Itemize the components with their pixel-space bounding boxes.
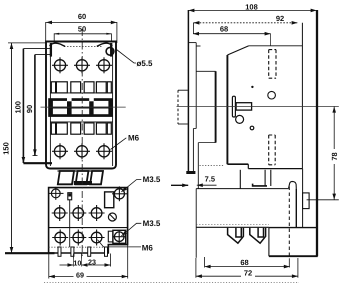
bottom terminal screw 1 (52, 143, 68, 159)
leader M3.5 (121, 180, 141, 192)
svg-text:50: 50 (78, 24, 86, 33)
relay solid bottom edge (196, 226, 269, 228)
body bottom right (248, 168, 302, 170)
small hole circle (268, 91, 276, 99)
indicator drop line (69, 200, 71, 247)
relay side left face (195, 189, 197, 258)
dim 90 line (34, 55, 36, 156)
svg-text:150: 150 (2, 142, 11, 155)
rail line under upper openings (50, 92, 112, 94)
svg-text:M6: M6 (128, 134, 140, 143)
relay foot slot 1 (58, 247, 61, 256)
leader M6 upper (111, 138, 127, 150)
relay dotted bottom line (49, 246, 109, 248)
side view center line (177, 105, 339, 107)
relay side bump (289, 181, 297, 188)
body chamfer (227, 46, 248, 55)
dim 23 line (82, 264, 111, 266)
relay divider line (49, 227, 128, 229)
dim 78 bottom extension (307, 199, 339, 201)
relay row2 screw 3 (89, 205, 105, 221)
svg-text:10: 10 (73, 258, 81, 267)
dashed screw center line (288, 187, 290, 259)
gap tab line (239, 170, 241, 189)
relay foot slot 3 (88, 247, 91, 256)
back plate rear face (187, 10, 189, 172)
armature pin (236, 103, 252, 110)
body inner left line (49, 48, 51, 166)
dim 92 line (dashed) (193, 22, 297, 24)
dim 10 extension lines (73, 254, 75, 267)
leader M6 lower (98, 240, 142, 247)
body bottom left (227, 163, 248, 165)
back plate top (188, 42, 196, 44)
back plate front face upper (195, 43, 197, 129)
dim 10 line (60, 264, 74, 266)
body rear inner face (215, 71, 217, 142)
rail line above lower openings (50, 121, 112, 123)
small dot lower (250, 126, 254, 130)
ear hole circle o5.5 (106, 47, 114, 55)
relay foot slot 4 (105, 247, 108, 256)
svg-text:100: 100 (14, 101, 23, 114)
small dot upper (251, 86, 253, 88)
top terminal screw 3 (96, 57, 112, 73)
dim 60 extension lines (45, 22, 47, 41)
relay row3 screw 1 (52, 230, 68, 246)
dim 7.5 line (171, 184, 188, 186)
notch bottom (196, 70, 215, 72)
text 78 (330, 149, 340, 164)
relay side top face (196, 188, 288, 190)
dim 100 line (22, 49, 24, 163)
bottom dims extensions (195, 258, 197, 278)
back plate front face lower (192, 129, 194, 172)
dim 7.5 line right part (197, 184, 217, 186)
front view dimension texts (2, 12, 161, 252)
left mounting ear stub (50, 43, 52, 57)
gap tab 2 left (264, 170, 266, 186)
dim 92 left extension (192, 23, 194, 34)
dim 69 extensions (48, 254, 50, 279)
contact band (dark) (48, 97, 113, 117)
terminal lug 1 (58, 171, 74, 184)
svg-text:78: 78 (330, 152, 339, 160)
inner step drop (197, 143, 199, 189)
relay M3.5 screw (top right) (112, 186, 127, 201)
claw 2 (250, 228, 266, 243)
svg-text:92: 92 (276, 14, 284, 23)
body bottom step (247, 164, 249, 168)
right mounting ear curve (97, 43, 113, 46)
bottom terminal screw 2 (74, 143, 90, 159)
dim 150 line (11, 43, 13, 253)
svg-text:68: 68 (220, 25, 228, 34)
body front face (301, 23, 303, 169)
front tab vertical (302, 169, 304, 228)
DIN clip dashed box (178, 89, 188, 91)
text 72 (241, 268, 255, 277)
lower block left (268, 228, 270, 257)
relay row2 screw 1 (52, 205, 68, 221)
front small tab (303, 193, 310, 209)
dim 100 extension top (23, 48, 51, 50)
lower block bottom (269, 255, 318, 257)
front view vertical center line (81, 29, 83, 257)
leader o5.5 (117, 50, 137, 64)
front view body outline (46, 42, 116, 169)
line between mounting ears (64, 46, 103, 48)
dim 68 line (193, 33, 271, 35)
dim 90 extension top (35, 54, 52, 56)
dim 50 line (54, 34, 111, 43)
dim 150 extension bottom (heavy) (5, 252, 55, 254)
dim 72 line (196, 275, 298, 277)
relay pocket small rect (108, 231, 113, 242)
bottom terminal screw 3 (96, 143, 112, 159)
dim 100 extension bottom (heavy) (23, 162, 52, 164)
relay row2 screw 2 (70, 205, 86, 221)
top terminal screw 1 (52, 57, 68, 73)
lug rail (58, 170, 104, 172)
svg-text:M6: M6 (142, 243, 154, 252)
dim 68 bottom line (205, 266, 290, 268)
dim 69 line (49, 276, 128, 278)
dim 23 extension (110, 254, 112, 267)
text 69 (74, 270, 87, 279)
relay row3 screw 3 (89, 230, 105, 246)
relay dotted bottom (196, 224, 269, 226)
body left face (226, 55, 228, 164)
svg-text:108: 108 (245, 2, 258, 11)
svg-text:69: 69 (76, 271, 84, 280)
svg-text:7.5: 7.5 (205, 175, 215, 184)
inner step (198, 142, 215, 144)
svg-text:90: 90 (25, 105, 34, 113)
svg-text:ø5.5: ø5.5 (136, 59, 153, 68)
back plate step (193, 128, 196, 130)
hidden slot lower (dashed) (269, 135, 276, 165)
upper terminal openings row (51, 82, 111, 93)
leader M3.5 lower (121, 223, 141, 236)
top terminal screw 2 (74, 57, 90, 73)
hidden slot upper (dashed) (269, 50, 276, 79)
back plate foot (186, 171, 195, 174)
body inner right line (112, 48, 114, 166)
gap heavy segment (253, 184, 267, 186)
terminal lug 3 (90, 171, 103, 184)
dim 150 extension top (8, 42, 46, 44)
lower terminal openings row (51, 123, 111, 134)
terminal lug 2 (76, 171, 89, 184)
relay boxed M3.5 screw (113, 230, 126, 243)
claw 1 (228, 228, 244, 243)
dim 60 line (46, 21, 117, 23)
front view horizontal center line (41, 106, 126, 108)
circle below pin (236, 115, 244, 123)
svg-text:60: 60 (78, 12, 86, 21)
svg-text:M3.5: M3.5 (143, 175, 161, 184)
armature bar (232, 96, 235, 117)
svg-text:23: 23 (88, 257, 96, 266)
svg-text:M3.5: M3.5 (143, 219, 161, 228)
dim 90 bottom tick (33, 155, 38, 157)
gap tab 2 right (270, 170, 272, 186)
right mounting ear stub (110, 43, 112, 57)
left mounting ear curve (50, 43, 66, 46)
relay foot slot 2 (71, 247, 74, 256)
dim 78 line (333, 107, 335, 200)
dim 108 line (188, 9, 316, 11)
overload relay front outline (49, 188, 128, 253)
relay slashed circle (108, 213, 116, 221)
body top face (249, 45, 303, 47)
text 10 (74, 259, 81, 267)
relay tall rect (reset button) (105, 192, 114, 208)
svg-text:72: 72 (244, 268, 252, 277)
relay row3 screw 2 (70, 230, 86, 246)
relay small indicator rect (68, 193, 72, 200)
svg-text:68: 68 (240, 258, 248, 267)
bottom dotted rule (44, 281, 299, 283)
lower block top (269, 227, 318, 229)
side view dimension texts (205, 2, 339, 277)
relay top small screw (49, 187, 64, 200)
relay side front face (295, 189, 297, 228)
dark bar under lugs (74, 181, 92, 185)
dim 68 right extension (270, 34, 272, 46)
front heavy vertical (108 extent) (316, 10, 318, 256)
hidden bottom dotted (200, 165, 225, 167)
plate top step (196, 45, 200, 47)
